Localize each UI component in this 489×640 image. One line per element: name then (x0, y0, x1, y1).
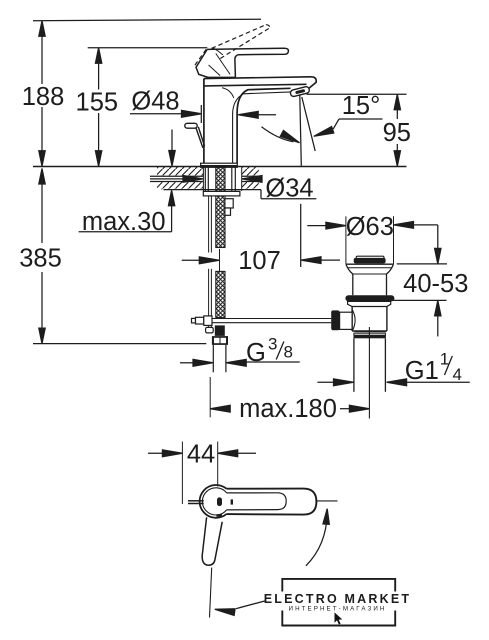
dimension 188 (39, 21, 45, 167)
top view spout tube (202, 517, 222, 565)
dimension 107 (182, 257, 340, 264)
svg-text:max.180: max.180 (239, 395, 337, 423)
faucet top band (204, 77, 316, 89)
svg-text:Ø34: Ø34 (265, 175, 313, 203)
text G 1 1/4 (405, 349, 462, 385)
G 3/8 dimension arrows (180, 359, 300, 366)
dimension diameter 48 arrows (130, 105, 276, 123)
drain valve upper flange (346, 264, 394, 277)
faucet base flange (201, 163, 238, 167)
pull rod guide block (225, 199, 233, 216)
svg-text:G: G (246, 339, 266, 367)
svg-text:max.30: max.30 (82, 208, 166, 236)
svg-text:4: 4 (453, 365, 462, 384)
stream vertical reference line (300, 96, 302, 166)
svg-text:40-53: 40-53 (403, 270, 468, 298)
horizontal linkage pipe (212, 319, 331, 323)
svg-text:8: 8 (284, 343, 293, 362)
drain valve body (352, 307, 387, 332)
supply tube below nut (213, 345, 226, 372)
faucet body left edge (203, 79, 205, 164)
centerline through pipe break (219, 249, 221, 272)
extension line top (raised lever level) (33, 19, 261, 21)
mouse cursor (335, 612, 343, 624)
top view lever outer (226, 489, 316, 515)
top view junction tick (231, 499, 233, 504)
drain tailpipe (354, 327, 386, 419)
handle lever (front view) (207, 48, 288, 77)
deck slab with hatching (150, 167, 261, 190)
drain valve knob (331, 310, 352, 330)
drain valve neck (353, 277, 387, 296)
svg-text:155: 155 (76, 89, 119, 117)
linkage left fittings (192, 316, 213, 326)
15 degree stream line (302, 97, 315, 151)
mounting hole edges (202, 167, 204, 191)
dimension max.30 leader arrows (79, 130, 176, 232)
handle raised position dashed (195, 25, 270, 65)
dimension 95 (394, 94, 400, 166)
drain valve collar (354, 332, 386, 339)
top view lever inner (227, 493, 287, 510)
diameter 34 label leader step (261, 190, 316, 199)
svg-text:107: 107 (238, 247, 281, 275)
aerator (290, 86, 310, 97)
handle body (196, 49, 235, 77)
lock nut under deck (203, 191, 240, 196)
deck top reference line (33, 166, 407, 168)
svg-text:Ø48: Ø48 (131, 88, 179, 116)
bottom reference line (385 end) (33, 343, 206, 345)
drain valve lower flange (348, 301, 391, 306)
svg-text:ELECTRO MARKET: ELECTRO MARKET (264, 592, 411, 606)
dimension diameter 63 (307, 216, 438, 264)
drain valve plug cap (354, 256, 386, 263)
top view left nub (188, 501, 204, 504)
stream reference extension (107 right edge) (300, 204, 302, 267)
spout underside inner accent (233, 92, 291, 163)
text G 3/8 (246, 335, 293, 368)
svg-text:15°: 15° (342, 92, 381, 120)
pull rod upper (209, 196, 212, 253)
top view swivel arc arrow (306, 508, 330, 565)
threaded shank lower (216, 271, 225, 317)
elbow block below linkage (215, 325, 225, 336)
stream line bottom view (210, 568, 212, 618)
svg-text:44: 44 (187, 440, 215, 468)
bottom leader arrow to stream line (214, 601, 264, 615)
top view bottom tick (216, 514, 222, 516)
pull rod lower end cap (206, 327, 214, 333)
dimension 44 (148, 442, 256, 505)
svg-text:385: 385 (19, 245, 62, 273)
dimension G 1 1/4 arrows (317, 379, 469, 386)
dimension diameter 34 arrows (150, 176, 262, 183)
drain valve o-ring (345, 295, 394, 301)
top view slot (217, 497, 222, 506)
top view faucet body circle (200, 485, 227, 518)
aerator level extension line (307, 93, 407, 95)
dimension 155 (95, 48, 101, 167)
G 3/8 nut (212, 336, 228, 345)
svg-text:ИНТЕРНЕТ-МАГАЗИН: ИНТЕРНЕТ-МАГАЗИН (289, 606, 387, 613)
threaded shank upper (216, 167, 225, 247)
dimension 40-53 (391, 225, 447, 337)
svg-text:188: 188 (22, 83, 65, 111)
svg-text:G1: G1 (405, 357, 439, 385)
watermark frame (282, 579, 395, 626)
inner corner arc (222, 88, 234, 98)
spout underside outer (237, 88, 290, 163)
dimension max.180 (210, 377, 369, 417)
svg-text:Ø63: Ø63 (346, 213, 394, 241)
handle inner detail lines (209, 48, 231, 76)
svg-text:95: 95 (383, 119, 411, 147)
shank sleeve lines through deck (205, 167, 235, 191)
dimension 385 (39, 169, 45, 344)
top view swivel axis line (316, 500, 337, 502)
extension line lever rest level (88, 47, 208, 49)
drain pull knob (front view) (185, 123, 205, 148)
pull rod lower (209, 269, 212, 327)
15 degree leader and arcs (262, 119, 383, 146)
svg-text:3: 3 (268, 335, 277, 354)
